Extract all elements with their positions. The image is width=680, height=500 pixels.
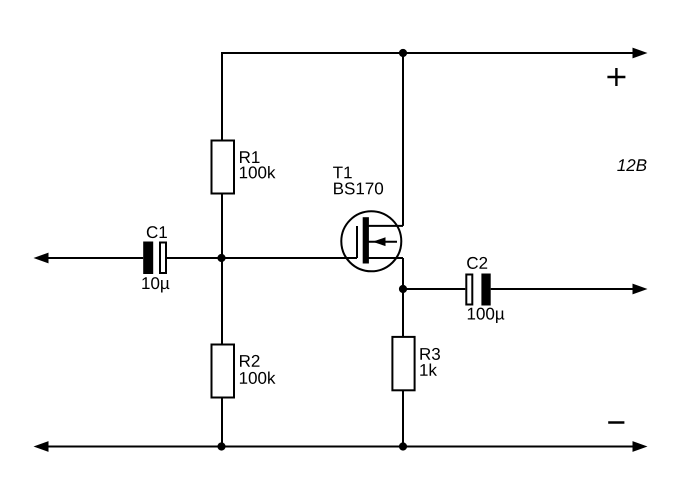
drain lead inside: [369, 225, 404, 227]
wire R2 bottom to ground rail: [221, 399, 223, 447]
transistor T1 BS170: [341, 211, 403, 271]
resistor R2: [212, 345, 235, 398]
wire arrowhead bottom rail left: [34, 441, 49, 452]
wire source down to bottom rail: [402, 258, 404, 336]
resistor R1: [212, 141, 235, 194]
node supply voltage label 12B: [617, 159, 646, 171]
transistor body circle: [341, 211, 401, 271]
label C1 value 10u: [142, 277, 169, 292]
source lead inside: [369, 257, 404, 259]
label R1 value: [240, 151, 276, 178]
node junction dot top rail: [399, 49, 407, 57]
wire arrowhead top rail right: [633, 48, 648, 59]
substrate arrow: [369, 241, 398, 243]
node minus terminal label: [608, 421, 624, 423]
wire arrowhead bottom rail right: [633, 441, 648, 452]
channel bar: [363, 217, 369, 263]
wire drain up to top rail: [402, 53, 404, 226]
capacitor C1: [143, 242, 166, 275]
wire R3 bottom to rail: [402, 391, 404, 447]
label C2: [467, 257, 487, 269]
label R3 value: [420, 348, 440, 376]
label T1 type: [333, 167, 383, 195]
wire from top rail down to R1: [221, 52, 223, 140]
label C1: [147, 226, 167, 238]
wire R1 bottom to R2 top: [221, 195, 223, 344]
node junction dot divider/gate: [217, 254, 225, 262]
gate electrode line: [356, 226, 358, 258]
node junction dot bottom rail under R3: [399, 442, 407, 450]
wire input lead with arrowhead left: [47, 257, 143, 259]
node plus terminal label: [607, 68, 625, 86]
wire bottom rail: [47, 446, 634, 448]
wire top supply rail: [222, 52, 634, 54]
capacitor C2: [466, 274, 490, 306]
wire C1 to gate: [167, 257, 357, 259]
wire output node to C2: [403, 288, 465, 290]
label C2 value 100u: [468, 308, 504, 323]
label R2 value: [240, 355, 276, 384]
node junction dot output: [399, 285, 407, 293]
node junction dot bottom rail under R2: [217, 442, 225, 450]
wire output lead with arrowhead right: [491, 288, 634, 290]
resistor R3: [392, 337, 414, 390]
